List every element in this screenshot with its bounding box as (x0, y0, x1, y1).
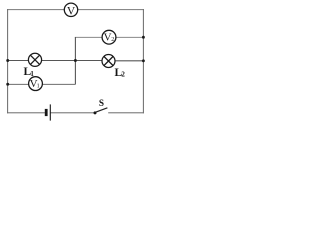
svg-text:1: 1 (37, 83, 40, 89)
svg-text:V: V (67, 6, 76, 18)
svg-text:S: S (99, 98, 104, 108)
svg-text:2: 2 (111, 37, 114, 43)
svg-text:1: 1 (30, 70, 34, 78)
svg-text:2: 2 (121, 70, 125, 78)
